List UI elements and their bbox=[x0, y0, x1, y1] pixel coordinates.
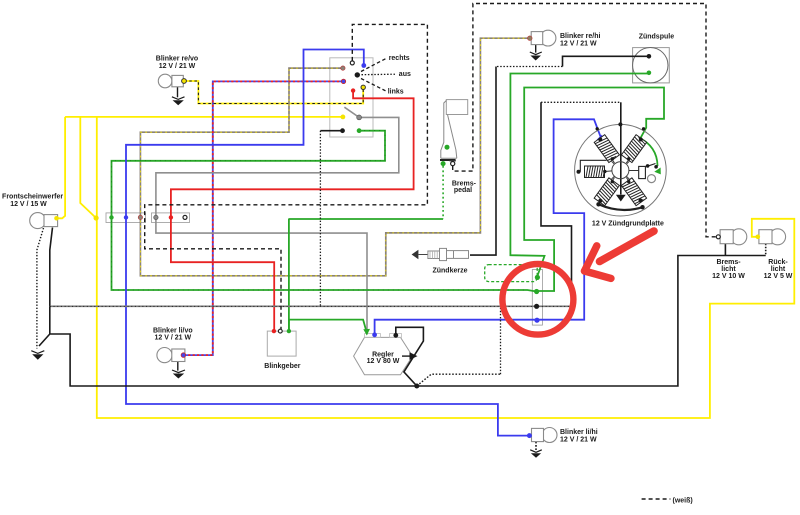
svg-text:Blinker li/hi: Blinker li/hi bbox=[560, 429, 598, 436]
svg-text:Brems-: Brems- bbox=[716, 259, 741, 266]
svg-text:Blinkgeber: Blinkgeber bbox=[264, 363, 300, 370]
svg-text:pedal: pedal bbox=[454, 187, 472, 194]
svg-text:12 V / 21 W: 12 V / 21 W bbox=[159, 63, 196, 70]
svg-text:12 V / 15 W: 12 V / 15 W bbox=[10, 201, 47, 208]
svg-text:aus: aus bbox=[399, 71, 411, 78]
svg-text:12 V / 21 W: 12 V / 21 W bbox=[560, 436, 597, 443]
svg-text:Zündspule: Zündspule bbox=[639, 33, 674, 40]
svg-text:12 V 80 W: 12 V 80 W bbox=[367, 358, 400, 365]
svg-text:12 V Zündgrundplatte: 12 V Zündgrundplatte bbox=[592, 221, 664, 228]
svg-text:rechts: rechts bbox=[389, 55, 410, 62]
svg-text:Frontscheinwerfer: Frontscheinwerfer bbox=[2, 194, 63, 201]
svg-text:links: links bbox=[388, 89, 404, 96]
svg-text:12 V 5 W: 12 V 5 W bbox=[764, 273, 793, 280]
svg-text:licht: licht bbox=[771, 266, 786, 273]
svg-text:Blinker re/hi: Blinker re/hi bbox=[560, 33, 601, 40]
svg-text:Blinker li/vo: Blinker li/vo bbox=[153, 327, 193, 334]
svg-text:12 V / 21 W: 12 V / 21 W bbox=[560, 40, 597, 47]
svg-text:Rück-: Rück- bbox=[768, 259, 788, 266]
svg-text:Blinker re/vo: Blinker re/vo bbox=[156, 56, 198, 63]
svg-text:Zündkerze: Zündkerze bbox=[432, 267, 467, 274]
svg-text:12 V 10 W: 12 V 10 W bbox=[712, 273, 745, 280]
svg-text:12 V / 21 W: 12 V / 21 W bbox=[155, 335, 192, 342]
svg-text:(weiß): (weiß) bbox=[673, 498, 693, 505]
svg-text:licht: licht bbox=[721, 266, 736, 273]
